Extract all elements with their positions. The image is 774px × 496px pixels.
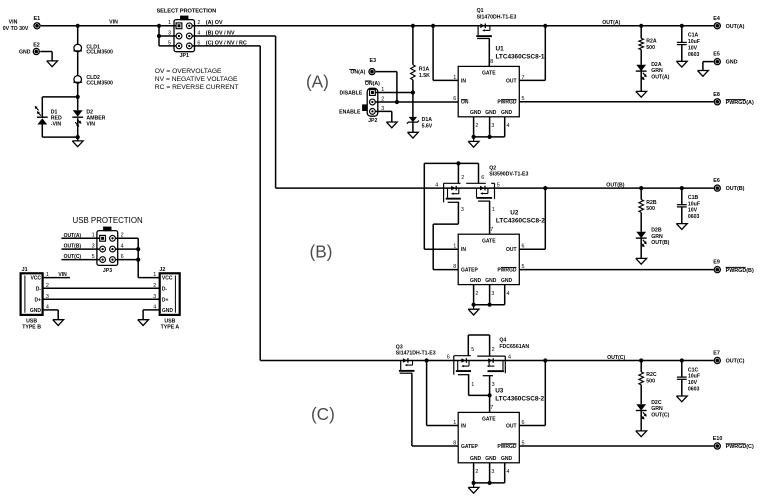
terminal E10 PWRGD(C) — [713, 436, 754, 450]
wire JP2 pin1 to R1A — [375, 92, 413, 94]
svg-text:C1C: C1C — [688, 367, 699, 373]
wire Q1 gate to U1 GATE pin 8 — [488, 39, 490, 67]
net label OUT(B) — [606, 183, 624, 189]
section label (B) — [310, 241, 333, 261]
svg-text:GATEP: GATEP — [461, 444, 479, 450]
svg-text:VIN: VIN — [58, 272, 67, 278]
JP3 pin 2 — [110, 233, 124, 242]
svg-text:U3: U3 — [495, 387, 504, 394]
JP1 pin 3 — [168, 30, 182, 38]
ground under D1A — [408, 132, 419, 138]
svg-text:Q2: Q2 — [489, 165, 496, 171]
svg-text:D2: D2 — [86, 109, 93, 115]
svg-text:E7: E7 — [713, 351, 720, 357]
svg-text:SELECT PROTECTION: SELECT PROTECTION — [156, 9, 216, 15]
resistor R2C 500 — [639, 361, 657, 405]
wire JP3 pins 2,4,6 to J2 VCC — [115, 238, 159, 277]
svg-text:VIN: VIN — [109, 20, 118, 26]
ground at E5 — [698, 71, 709, 77]
junction VIN at JP1 left branch — [157, 24, 161, 28]
transistor Q4 FDC6561AN dual — [499, 338, 529, 351]
wire net C from JP1 pin 6 — [192, 46, 260, 361]
svg-text:OUT(B): OUT(B) — [651, 240, 669, 246]
JP3 pin 4 — [110, 244, 124, 253]
svg-text:GND: GND — [726, 60, 738, 66]
Q2 pin labels top — [461, 175, 484, 181]
terminal E8 PWRGD(A) — [713, 92, 754, 106]
junction net A at R2A — [639, 24, 643, 28]
terminal E7 OUT(C) — [713, 351, 744, 365]
wire U2 PWRGD to E9 — [519, 269, 713, 271]
svg-text:LTC4360CSC8-1: LTC4360CSC8-1 — [496, 54, 545, 61]
svg-text:C1B: C1B — [688, 195, 699, 201]
op-amp U2 LTC4360CSC8-2 — [453, 209, 545, 284]
svg-text:OUT(C): OUT(C) — [726, 359, 745, 365]
transistor Q4 left half — [447, 355, 475, 389]
wire Q2 pin1 to U2 GATE pin 7 — [489, 201, 491, 234]
svg-text:0V TO 30V: 0V TO 30V — [3, 26, 29, 32]
svg-text:OUT(C): OUT(C) — [64, 254, 82, 260]
current limiting diode CLD2 CCLM3500 — [73, 75, 113, 86]
svg-text:SI1470DH-T1-E3: SI1470DH-T1-E3 — [477, 14, 517, 20]
svg-text:DISABLE: DISABLE — [340, 91, 363, 97]
svg-text:0603: 0603 — [688, 52, 700, 58]
svg-text:5: 5 — [471, 347, 474, 353]
svg-text:R2C: R2C — [646, 372, 657, 378]
zener D1A 5.6V — [407, 117, 433, 132]
svg-text:10V: 10V — [688, 380, 698, 386]
JP1 pin 4 — [186, 30, 200, 38]
junction net B at R2B — [639, 186, 643, 190]
ground at JP2 pin3 — [386, 122, 397, 128]
JP3 pin 5 OUT(C) — [92, 254, 106, 263]
svg-text:OUT(A): OUT(A) — [64, 233, 82, 239]
wire Q3 gate to U3 GATEP — [412, 373, 458, 446]
wire net B rail — [276, 187, 714, 189]
svg-text:CCLM3500: CCLM3500 — [86, 50, 113, 56]
svg-text:OUT(A): OUT(A) — [651, 74, 669, 80]
svg-text:1: 1 — [168, 20, 171, 26]
wire J1 D+ to J2 D+ — [43, 298, 160, 300]
LED D1 RED -VIN — [35, 106, 62, 128]
wire CLD branch down — [77, 26, 79, 97]
svg-text:8: 8 — [490, 59, 493, 65]
JP3 pin 1 OUT(A) — [92, 233, 106, 242]
svg-text:2: 2 — [475, 469, 478, 475]
svg-text:JP3: JP3 — [103, 268, 112, 274]
svg-text:3: 3 — [491, 291, 494, 297]
net label OUT(C) — [607, 355, 625, 361]
svg-text:10uF: 10uF — [688, 374, 700, 380]
capacitor C1B 10uF 10V 0603 — [677, 188, 700, 224]
junction R1A / JP2 pin1 — [411, 90, 415, 94]
svg-text:OUT(A): OUT(A) — [602, 20, 620, 26]
svg-text:R1A: R1A — [419, 66, 430, 72]
svg-text:D1: D1 — [51, 109, 58, 115]
transistor Q2 left half — [435, 183, 464, 213]
svg-text:ON(A): ON(A) — [350, 70, 365, 76]
header JP2 ON(A) — [362, 81, 380, 124]
svg-text:D-: D- — [162, 286, 168, 292]
svg-text:4: 4 — [435, 183, 438, 189]
svg-text:GND: GND — [470, 278, 482, 284]
wire Q2 gates top link — [424, 161, 478, 183]
header JP1 SELECT PROTECTION — [156, 9, 216, 60]
svg-text:2: 2 — [475, 123, 478, 129]
wire to D1 branch — [42, 97, 77, 137]
svg-text:8: 8 — [453, 440, 456, 446]
wire VIN E1 to JP1 pin 1 — [41, 20, 177, 26]
svg-text:E2: E2 — [33, 42, 40, 48]
svg-text:U2: U2 — [510, 209, 519, 216]
svg-text:U1: U1 — [496, 45, 505, 52]
svg-text:GND: GND — [485, 278, 497, 284]
title USB PROTECTION — [73, 216, 143, 225]
wire JP1 left pins 3,5 — [157, 26, 177, 46]
svg-text:C1A: C1A — [688, 33, 699, 39]
svg-text:7: 7 — [490, 227, 493, 233]
svg-text:D+: D+ — [34, 297, 41, 303]
svg-text:D-: D- — [36, 286, 42, 292]
svg-text:1: 1 — [453, 244, 456, 250]
section label (A) — [306, 71, 329, 91]
svg-text:OUT(C): OUT(C) — [607, 355, 625, 361]
section label (C) — [311, 404, 335, 424]
wire U1 OUT to net A — [519, 24, 547, 81]
JP2 pin 1 DISABLE — [340, 87, 385, 97]
wire D2 branch down — [77, 97, 79, 137]
connector J2 USB TYPE A — [159, 267, 179, 330]
svg-text:R2B: R2B — [646, 200, 657, 206]
svg-text:D2A: D2A — [651, 62, 662, 68]
svg-text:GND: GND — [19, 50, 31, 56]
wire J1 D- to J2 D- — [43, 287, 160, 289]
junction ON(A) node — [395, 100, 399, 104]
ground at E2 — [47, 61, 58, 67]
svg-text:IN: IN — [461, 247, 466, 253]
svg-text:ON(A): ON(A) — [365, 81, 380, 87]
svg-text:3: 3 — [491, 469, 494, 475]
ground under C1A — [676, 61, 687, 67]
svg-text:PWRGD(C): PWRGD(C) — [726, 444, 754, 450]
svg-text:PWRGD: PWRGD — [497, 268, 517, 274]
wire J1 GND to ground — [43, 310, 59, 320]
svg-text:D2C: D2C — [651, 400, 662, 406]
ground under D1/D2 — [72, 141, 83, 147]
transistor Q4 right half — [477, 355, 511, 388]
svg-text:E5: E5 — [713, 52, 720, 58]
svg-text:7: 7 — [490, 405, 493, 411]
wire U2 OUT to net B — [519, 186, 547, 249]
net stub OUT(A) to JP3 — [61, 233, 99, 239]
terminal E5 GND — [713, 52, 737, 66]
net stub VIN at J1 pin 1 — [43, 272, 70, 278]
svg-text:CCLM3500: CCLM3500 — [86, 81, 113, 87]
legend OV NV RC — [155, 68, 239, 91]
svg-text:JP1: JP1 — [180, 53, 189, 59]
capacitor C1C 10uF 10V 0603 — [677, 361, 700, 397]
svg-text:GATE: GATE — [482, 417, 496, 423]
JP3 pin 6 — [110, 254, 124, 263]
svg-text:VCC: VCC — [30, 276, 41, 282]
ground under D2A — [636, 91, 647, 97]
U1 ground cluster pins 2,3,4 — [468, 117, 509, 147]
wire E3 to ON net — [376, 72, 397, 102]
svg-text:OUT(B): OUT(B) — [726, 186, 745, 192]
op-amp U3 LTC4360CSC8-2 — [453, 387, 544, 462]
JP1 pin 2 — [186, 20, 200, 29]
svg-text:Q3: Q3 — [396, 344, 403, 350]
svg-text:1.5K: 1.5K — [419, 73, 430, 79]
svg-text:SI1471DH-T1-E3: SI1471DH-T1-E3 — [396, 351, 436, 357]
wire JP2 pin2 to U1 ON — [375, 101, 458, 103]
svg-text:10uF: 10uF — [688, 39, 700, 45]
wire U3 PWRGD to E10 — [519, 445, 713, 447]
ground at J1 — [53, 320, 64, 326]
terminal E3 ON(A) — [349, 58, 376, 75]
transistor Q2 SI3590DV-T1-E3 dual — [489, 165, 528, 177]
svg-text:GND: GND — [162, 308, 174, 314]
svg-text:4: 4 — [507, 291, 510, 297]
junction net C at R2C — [639, 358, 643, 362]
svg-text:GND: GND — [501, 278, 513, 284]
svg-text:2: 2 — [153, 283, 156, 289]
wire U2 IN drop — [424, 163, 458, 249]
svg-text:SI3590DV-T1-E3: SI3590DV-T1-E3 — [489, 172, 528, 178]
svg-text:10uF: 10uF — [688, 201, 700, 207]
ground under C1B — [676, 224, 687, 230]
svg-text:GND: GND — [501, 110, 513, 116]
JP1 pin 1 — [168, 20, 182, 29]
net label (C) OV / NV / RC — [206, 40, 247, 46]
JP1 pin 6 — [186, 40, 200, 49]
svg-text:PWRGD: PWRGD — [497, 444, 517, 450]
svg-text:R2A: R2A — [646, 39, 657, 45]
svg-text:GND: GND — [485, 110, 497, 116]
svg-text:OUT: OUT — [506, 78, 517, 84]
svg-text:10V: 10V — [688, 45, 698, 51]
svg-text:4: 4 — [507, 123, 510, 129]
LED D2 AMBER VIN — [72, 109, 105, 127]
ground under D2C — [636, 431, 647, 437]
svg-text:500: 500 — [646, 379, 655, 385]
svg-text:1: 1 — [453, 75, 456, 81]
junction net C at C1C — [680, 358, 684, 362]
wire net B from JP1 pin 4 — [192, 36, 275, 188]
wire net C rail — [260, 360, 714, 362]
svg-text:2: 2 — [492, 347, 495, 353]
J1 pin numbers — [46, 272, 49, 310]
svg-text:E8: E8 — [713, 92, 720, 98]
header JP3 — [97, 227, 118, 275]
svg-text:GND: GND — [470, 110, 482, 116]
svg-text:GND: GND — [30, 308, 42, 314]
svg-text:E9: E9 — [713, 260, 720, 266]
junction net A at C1A — [680, 24, 684, 28]
wire U1 IN drop — [431, 24, 458, 81]
JP3 pin 3 OUT(B) — [92, 244, 106, 253]
current limiting diode CLD1 CCLM3500 — [73, 44, 113, 56]
LED D2C GRN OUT(C) — [636, 400, 670, 431]
op-amp U1 LTC4360CSC8-1 — [453, 45, 545, 116]
svg-text:VIN: VIN — [9, 20, 18, 26]
U2 ground cluster pins 2,3,4 — [468, 285, 509, 315]
svg-text:2: 2 — [475, 291, 478, 297]
JP1 pin 5 — [168, 40, 182, 49]
svg-text:10V: 10V — [688, 208, 698, 214]
svg-text:PWRGD: PWRGD — [497, 100, 517, 106]
svg-text:D2B: D2B — [651, 228, 662, 234]
svg-text:PWRGD(A): PWRGD(A) — [726, 100, 754, 106]
svg-text:AMBER: AMBER — [86, 116, 105, 122]
net stub OUT(C) to JP3 — [61, 254, 99, 260]
wire J2 GND to ground — [143, 310, 160, 320]
transistor Q2 right half — [466, 183, 500, 213]
junction VIN at CLD branch — [76, 24, 80, 28]
svg-text:4: 4 — [508, 355, 511, 361]
svg-text:OUT(B): OUT(B) — [64, 244, 82, 250]
svg-text:J1: J1 — [22, 267, 28, 273]
terminal E2 GND — [19, 42, 40, 55]
svg-text:3: 3 — [461, 207, 464, 213]
svg-text:1: 1 — [153, 272, 156, 278]
svg-text:3: 3 — [153, 294, 156, 300]
svg-text:Q1: Q1 — [477, 8, 484, 14]
ground under D2B — [636, 258, 647, 264]
resistor R1A 1.5K — [411, 24, 431, 117]
svg-text:E3: E3 — [370, 58, 377, 64]
connector J1 USB TYPE B — [21, 267, 43, 330]
svg-text:E1: E1 — [34, 16, 41, 22]
svg-text:(C): (C) — [311, 404, 335, 424]
ground at J2 — [138, 320, 149, 326]
svg-text:OUT: OUT — [506, 247, 517, 253]
svg-text:GRN: GRN — [651, 406, 663, 412]
svg-text:PWRGD(B): PWRGD(B) — [726, 268, 754, 274]
svg-text:GRN: GRN — [651, 234, 663, 240]
svg-text:8: 8 — [453, 264, 456, 270]
net label (A) OV — [206, 20, 223, 26]
svg-text:OV = OVERVOLTAGE: OV = OVERVOLTAGE — [155, 68, 222, 75]
svg-text:E10: E10 — [713, 436, 723, 442]
transistor Q3 SI1471DH-T1-E3 — [396, 344, 436, 373]
LED D2A GRN OUT(A) — [636, 62, 670, 91]
svg-text:0603: 0603 — [688, 387, 700, 393]
JP2 pin 3 ENABLE — [339, 106, 384, 115]
svg-text:3: 3 — [492, 382, 495, 388]
svg-text:VIN: VIN — [86, 122, 95, 128]
svg-text:4: 4 — [507, 469, 510, 475]
svg-text:GATEP: GATEP — [461, 268, 479, 274]
svg-text:USB: USB — [26, 318, 37, 324]
svg-text:E6: E6 — [713, 178, 720, 184]
svg-text:ON: ON — [461, 100, 469, 106]
svg-text:Q4: Q4 — [499, 338, 506, 344]
svg-text:(A): (A) — [306, 71, 329, 91]
svg-text:NV = NEGATIVE VOLTAGE: NV = NEGATIVE VOLTAGE — [155, 76, 238, 83]
svg-text:5.6V: 5.6V — [422, 124, 433, 130]
wire U1 PWRGD to E8 — [519, 101, 713, 103]
svg-text:1: 1 — [471, 382, 474, 388]
J2 pin numbers — [153, 272, 156, 310]
svg-text:500: 500 — [646, 45, 655, 51]
svg-text:OUT(A): OUT(A) — [726, 24, 745, 30]
svg-text:IN: IN — [461, 78, 466, 84]
wire to ground — [77, 137, 79, 141]
svg-text:OUT(C): OUT(C) — [651, 412, 669, 418]
junction at LED branch — [76, 95, 80, 99]
U3 ground cluster pins 2,3,4 — [468, 463, 509, 493]
svg-text:FDC6561AN: FDC6561AN — [499, 344, 529, 350]
wire U3 OUT to net C — [519, 358, 547, 425]
svg-text:LTC4360CSC8-2: LTC4360CSC8-2 — [496, 218, 545, 225]
svg-text:GRN: GRN — [651, 68, 663, 74]
svg-text:TYPE B: TYPE B — [22, 325, 41, 331]
resistor R2B 500 — [639, 188, 657, 232]
wire Q2 pin3 to U2 GATEP — [433, 202, 458, 269]
terminal E9 PWRGD(B) — [713, 260, 754, 274]
svg-text:2: 2 — [461, 175, 464, 181]
svg-text:GND: GND — [485, 456, 497, 462]
svg-text:1: 1 — [453, 420, 456, 426]
terminal E6 OUT(B) — [713, 178, 744, 192]
terminal E1 VIN — [3, 16, 41, 32]
svg-text:IN: IN — [461, 423, 466, 429]
Q4 pin labels top — [471, 347, 494, 353]
svg-text:D1A: D1A — [422, 117, 433, 123]
svg-text:500: 500 — [646, 206, 655, 212]
junction at D1/D2 ground — [76, 135, 80, 139]
svg-text:6: 6 — [481, 175, 484, 181]
svg-text:OUT(B): OUT(B) — [606, 183, 624, 189]
svg-text:USB: USB — [164, 318, 175, 324]
svg-text:1: 1 — [492, 207, 495, 213]
wire JP2 pin3 to ground — [375, 111, 392, 122]
svg-text:RED: RED — [51, 116, 62, 122]
svg-text:JP2: JP2 — [368, 118, 377, 124]
svg-text:RC = REVERSE CURRENT: RC = REVERSE CURRENT — [155, 84, 239, 91]
svg-text:J2: J2 — [159, 267, 165, 273]
svg-text:USB PROTECTION: USB PROTECTION — [73, 216, 143, 225]
junction U3 IN drop — [425, 358, 459, 425]
svg-text:(B): (B) — [310, 241, 333, 261]
wire Q4 gates top link — [468, 335, 489, 356]
ground under C1C — [676, 396, 687, 402]
svg-text:D+: D+ — [162, 297, 169, 303]
svg-text:0603: 0603 — [688, 214, 700, 220]
LED D2B GRN OUT(B) — [636, 228, 670, 259]
net label (B) OV / NV — [206, 30, 235, 36]
terminal E4 OUT(A) — [713, 16, 744, 30]
svg-text:GATE: GATE — [482, 71, 496, 77]
svg-text:3: 3 — [491, 123, 494, 129]
wire Q4 sources join — [469, 375, 492, 413]
svg-text:GND: GND — [501, 456, 513, 462]
svg-text:6: 6 — [453, 96, 456, 102]
svg-text:VCC: VCC — [162, 276, 173, 282]
svg-text:6: 6 — [447, 355, 450, 361]
capacitor C1A 10uF 10V 0603 — [677, 26, 700, 62]
svg-text:GATE: GATE — [482, 238, 496, 244]
svg-text:-VIN: -VIN — [51, 122, 62, 128]
wire E5 to ground — [703, 62, 714, 71]
resistor R2A 500 — [639, 26, 657, 65]
svg-text:OUT: OUT — [506, 423, 517, 429]
svg-text:GND: GND — [470, 456, 482, 462]
svg-text:ENABLE: ENABLE — [339, 109, 361, 115]
svg-text:TYPE A: TYPE A — [161, 325, 180, 331]
svg-text:E4: E4 — [713, 16, 720, 22]
